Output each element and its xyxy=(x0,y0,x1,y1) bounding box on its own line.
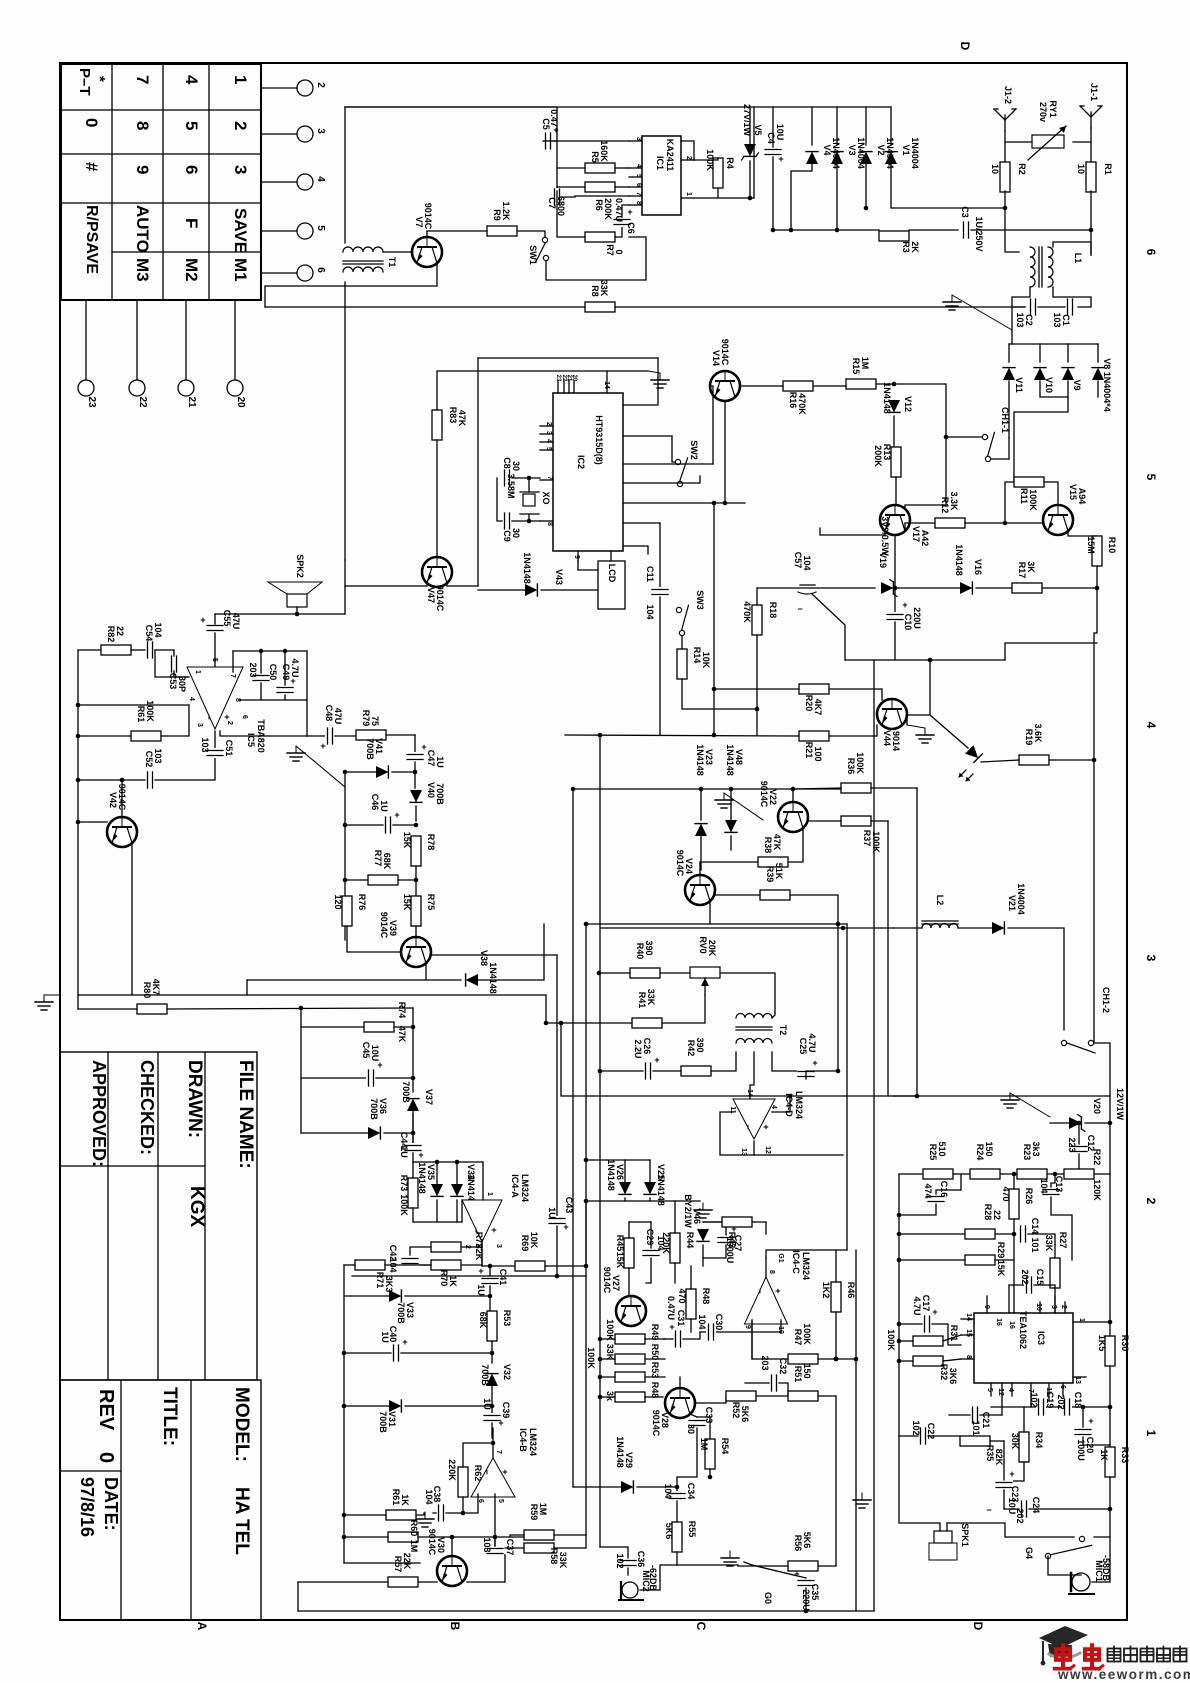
wire R15 to corner xyxy=(894,384,946,509)
svg-text:30: 30 xyxy=(511,461,521,471)
wire node to L1 left xyxy=(1005,230,1019,252)
wire V47 left loop xyxy=(345,583,427,586)
svg-text:C9: C9 xyxy=(502,530,512,542)
pin 9 IC3 xyxy=(983,1296,990,1313)
resistor R45 15K xyxy=(624,1238,634,1268)
wire R80 left xyxy=(78,1008,137,1010)
label L1 xyxy=(1073,253,1083,264)
svg-text:3V9/0.5W: 3V9/0.5W xyxy=(880,516,890,556)
wire C53 stub xyxy=(173,650,175,656)
wire C52 right xyxy=(155,731,215,780)
label C51 xyxy=(200,737,234,756)
wire y1222 row xyxy=(413,1221,462,1223)
svg-text:R2: R2 xyxy=(1017,163,1027,175)
wire V11 to CH1-1 xyxy=(1008,438,1010,459)
label R79 xyxy=(361,710,380,727)
svg-text:+: + xyxy=(794,1569,799,1579)
switch SW3 xyxy=(676,590,705,635)
svg-text:R17: R17 xyxy=(1017,562,1027,579)
wire C31 right xyxy=(683,1332,700,1339)
label V3 xyxy=(847,137,866,169)
svg-text:FILE NAME:: FILE NAME: xyxy=(235,1060,256,1169)
svg-text:T2: T2 xyxy=(778,1025,788,1036)
resistor R6 200K xyxy=(585,182,615,192)
label C27 xyxy=(725,1235,743,1264)
wire V5 down xyxy=(749,161,751,198)
wire bus to C5 xyxy=(345,107,557,141)
label R42 xyxy=(686,1037,705,1056)
label R44 xyxy=(661,1232,695,1255)
label C1 xyxy=(1052,312,1071,327)
wire V22 collector xyxy=(792,789,794,802)
label R23 xyxy=(1022,1141,1041,1160)
wire crystal taps xyxy=(528,478,530,492)
junction col714/p11 xyxy=(712,501,717,506)
wire bus col600 xyxy=(599,735,601,1547)
resistor R2 xyxy=(990,162,1027,192)
svg-text:RV0: RV0 xyxy=(698,936,708,953)
wire keypad row 5 to pin 6 xyxy=(261,272,298,274)
junction col899 R28 xyxy=(897,1232,902,1237)
resistor R82 22 xyxy=(101,645,131,655)
wire loop top xyxy=(478,357,658,359)
zone label B bottom edge xyxy=(448,1622,462,1631)
wire pin7 stub xyxy=(232,651,234,672)
label C4 xyxy=(766,124,785,144)
capacitor C44 1U xyxy=(404,1143,424,1160)
svg-text:10K: 10K xyxy=(701,652,711,669)
wire C53 to amp xyxy=(174,671,188,677)
wire col344 bottom stub xyxy=(344,1562,420,1564)
svg-text:R19: R19 xyxy=(1024,729,1034,746)
junction V42 base xyxy=(76,820,81,825)
resistor R75 15K xyxy=(411,896,421,926)
resistor R69 10K xyxy=(515,1261,545,1271)
svg-text:R16: R16 xyxy=(788,392,798,409)
svg-text:IC2: IC2 xyxy=(576,455,586,469)
label R82 xyxy=(106,626,125,643)
resistor R36 100K xyxy=(841,783,871,793)
svg-text:470: 470 xyxy=(677,1288,687,1303)
svg-text:R33: R33 xyxy=(1120,1447,1130,1464)
diode V26 1N4148 xyxy=(619,1182,631,1194)
label R77 xyxy=(373,850,392,870)
svg-text:R53: R53 xyxy=(502,1310,512,1327)
label R11 xyxy=(1019,488,1038,511)
junction R20 col714 xyxy=(712,687,717,692)
svg-text:BY2/1W: BY2/1W xyxy=(683,1194,693,1228)
capacitor C2 103 xyxy=(1028,298,1038,316)
svg-text:+: + xyxy=(377,1060,382,1070)
svg-text:R48: R48 xyxy=(650,1382,660,1399)
junction V4/y230 xyxy=(789,228,794,233)
wire V38 row xyxy=(247,979,461,981)
wire bus col888 xyxy=(887,821,889,1096)
svg-text:V47: V47 xyxy=(426,587,436,603)
label R72 xyxy=(474,1232,484,1261)
svg-text:L2: L2 xyxy=(935,895,945,906)
varistor RY1 xyxy=(1028,100,1066,160)
wire R1 down xyxy=(1090,191,1092,255)
label R6 xyxy=(594,198,613,220)
svg-text:IC4-B: IC4-B xyxy=(518,1428,528,1452)
wire keypad column to pin 20 xyxy=(234,300,236,381)
wire V15 emitter xyxy=(1068,531,1097,536)
svg-text:+: + xyxy=(812,1058,817,1068)
connector pin 22 xyxy=(129,380,148,408)
label V43 xyxy=(522,552,564,585)
wire pin7 top xyxy=(233,650,307,652)
ground C38 xyxy=(416,1512,434,1527)
svg-text:C52: C52 xyxy=(144,751,154,768)
resistor R1 xyxy=(1076,162,1113,192)
svg-text:1N4004: 1N4004 xyxy=(885,137,895,169)
pin 2 IC1 xyxy=(681,156,694,160)
svg-text:V38: V38 xyxy=(479,950,489,966)
wire IC4C out top xyxy=(766,1250,847,1258)
svg-text:HA TEL: HA TEL xyxy=(231,1487,252,1555)
label V46 xyxy=(683,1194,702,1228)
label 12V xyxy=(1115,1088,1125,1121)
wire V47 right xyxy=(447,583,478,586)
svg-text:2: 2 xyxy=(231,121,250,130)
label R34 xyxy=(1010,1432,1044,1450)
svg-text:5: 5 xyxy=(315,225,326,231)
wire C12 up xyxy=(1078,1123,1080,1144)
junction V41 col xyxy=(343,770,348,775)
logo text dianzi xiazaizhan xyxy=(1108,1647,1187,1662)
svg-text:R50: R50 xyxy=(650,1344,660,1361)
diode V12 1N4148 xyxy=(888,400,900,412)
wire p15 xyxy=(623,476,700,483)
op-amp IC5 TBA820 xyxy=(187,667,243,729)
wire IC4C p9 down xyxy=(751,1320,753,1359)
svg-text:1N4004: 1N4004 xyxy=(1016,883,1026,915)
keypad key SAVE xyxy=(231,208,250,253)
junction y735 x600 xyxy=(598,733,603,738)
label C6 xyxy=(614,198,636,234)
svg-text:+: + xyxy=(478,1266,483,1276)
svg-text:2.2U: 2.2U xyxy=(633,1039,643,1058)
wire V11 anode down xyxy=(1008,381,1010,438)
label C25 xyxy=(798,1033,817,1054)
resistor R48b 470 xyxy=(686,1289,696,1319)
wire V20 right xyxy=(1085,1122,1110,1124)
capacitor C13 104 xyxy=(1042,1187,1060,1197)
junction xtal top xyxy=(527,476,532,481)
svg-text:LM324: LM324 xyxy=(528,1428,538,1456)
svg-text:R34: R34 xyxy=(1034,1432,1044,1449)
junction C40/R53 xyxy=(490,1351,495,1356)
svg-text:M2: M2 xyxy=(182,258,201,282)
label C38 xyxy=(424,1486,442,1505)
wire V27 base xyxy=(628,1268,630,1296)
junction y924 x838 xyxy=(836,922,841,927)
label V35 xyxy=(417,1162,436,1194)
svg-text:R39: R39 xyxy=(765,866,775,883)
svg-text:V10: V10 xyxy=(1044,377,1054,393)
pin 16 IC3 xyxy=(1008,1321,1015,1329)
svg-text:5: 5 xyxy=(182,121,201,130)
wire R14 down xyxy=(682,679,757,709)
capacitor C8 30 xyxy=(502,469,512,487)
svg-text:1M: 1M xyxy=(538,1503,548,1516)
svg-text:15K: 15K xyxy=(996,1260,1006,1277)
wire R40-RV0 xyxy=(660,972,690,974)
wire C38 left xyxy=(433,1512,436,1514)
wire C14 right xyxy=(1028,1234,1055,1245)
label C11 xyxy=(645,566,655,620)
wire V8 top xyxy=(1097,344,1099,362)
svg-text:V3: V3 xyxy=(847,144,857,155)
svg-text:R11: R11 xyxy=(1019,488,1029,504)
resistor R17 3K xyxy=(1012,583,1042,593)
keypad key 8 xyxy=(133,121,152,130)
wire C49 up xyxy=(284,651,286,685)
svg-text:C19: C19 xyxy=(1045,1392,1055,1409)
keypad key 1 xyxy=(231,75,250,84)
wire R70 right xyxy=(461,1247,482,1265)
wire R32 left xyxy=(899,1360,913,1362)
svg-text:97/8/16: 97/8/16 xyxy=(77,1477,97,1537)
capacitor C31 0.47U xyxy=(669,1322,683,1348)
svg-text:9014C: 9014C xyxy=(435,585,445,612)
ground near L1 xyxy=(943,295,1012,330)
svg-text:C47: C47 xyxy=(426,750,436,767)
resistor R72 82K xyxy=(431,1242,461,1252)
capacitor C49 4.7U xyxy=(276,676,296,695)
resistor R37 100K xyxy=(841,816,871,826)
svg-text:R73: R73 xyxy=(399,1175,409,1192)
svg-text:J1-1: J1-1 xyxy=(1089,83,1099,101)
svg-text:R45: R45 xyxy=(615,1235,625,1252)
svg-text:9: 9 xyxy=(133,165,152,174)
svg-text:R75: R75 xyxy=(426,894,436,911)
diode V21 1N4004 xyxy=(992,922,1004,934)
capacitor C30 104 xyxy=(706,1323,716,1341)
resistor R46 1K2 xyxy=(831,1282,841,1312)
svg-text:R21: R21 xyxy=(804,742,814,759)
resistor R78 15K xyxy=(411,836,421,866)
svg-text:R57: R57 xyxy=(393,1556,403,1573)
title table 1 grid xyxy=(60,1052,257,1380)
junction V36/col413 xyxy=(411,1131,416,1136)
wire R37 left xyxy=(808,820,841,822)
diode V41 700B xyxy=(376,766,388,778)
wire V14 to R16 xyxy=(740,385,783,387)
label R43 xyxy=(727,1232,737,1249)
label V28 xyxy=(651,1410,670,1437)
wire out to C48 xyxy=(307,735,325,737)
diode V38 1N4148 xyxy=(466,974,478,986)
label IC5 xyxy=(246,719,266,753)
wire R60 left xyxy=(344,1536,388,1538)
zener V5 27V/1W xyxy=(742,144,759,160)
junction col899 R32 xyxy=(897,1359,902,1364)
svg-text:F: F xyxy=(182,218,201,228)
wire R35 right xyxy=(990,1440,1004,1442)
svg-text:33K: 33K xyxy=(1044,1235,1054,1252)
svg-text:R59: R59 xyxy=(529,1504,539,1521)
capacitor C15 202 xyxy=(1024,1276,1034,1294)
svg-text:3: 3 xyxy=(495,1244,502,1248)
svg-text:100U: 100U xyxy=(1076,1439,1086,1461)
svg-text:7: 7 xyxy=(133,75,152,84)
wire V43 to LCD xyxy=(541,589,598,591)
wire R27 top xyxy=(1054,1245,1056,1258)
label IC2 xyxy=(576,415,604,469)
svg-text:104: 104 xyxy=(424,1489,434,1504)
resistor R33 1K xyxy=(1105,1447,1115,1477)
wire CH1-2 right xyxy=(1094,1043,1110,1096)
wire V24 to R39 xyxy=(715,894,760,896)
wire RY1 right xyxy=(1073,141,1091,143)
wire R18 node down xyxy=(756,709,758,735)
wire crystal left xyxy=(497,478,502,521)
diode V34 1N4148 xyxy=(451,1184,463,1196)
label R24 xyxy=(975,1141,994,1160)
svg-text:+: + xyxy=(489,1227,499,1232)
wire C55 to pin5 xyxy=(214,633,216,667)
wire col586 lower xyxy=(585,1276,587,1548)
wire V17 left xyxy=(820,528,885,535)
resistor R47 100K xyxy=(788,1354,818,1364)
svg-text:C57: C57 xyxy=(793,552,803,569)
svg-text:3: 3 xyxy=(1050,1305,1057,1309)
label V40 xyxy=(426,782,445,805)
svg-text:30: 30 xyxy=(511,528,521,538)
wire col301 xyxy=(300,1008,302,1133)
label V16 xyxy=(954,544,983,576)
junction col546/R41 xyxy=(544,1021,549,1026)
label C48 xyxy=(324,705,343,725)
label C2 xyxy=(1015,312,1034,327)
svg-text:C8: C8 xyxy=(502,457,512,469)
junction col344 R61 xyxy=(342,1513,347,1518)
wire V28 top xyxy=(679,1377,681,1388)
svg-text:R44: R44 xyxy=(685,1232,695,1249)
resistor R18 470K xyxy=(752,605,762,635)
svg-text:5K6: 5K6 xyxy=(664,1523,674,1540)
svg-text:SW3: SW3 xyxy=(695,590,705,610)
label R37 xyxy=(862,830,881,854)
junction col561/R41 xyxy=(559,1021,564,1026)
capacitor C40 1U xyxy=(391,1337,408,1362)
keypad key 3 xyxy=(231,165,250,174)
svg-text:R70: R70 xyxy=(439,1270,449,1287)
svg-text:9014C: 9014C xyxy=(602,1267,612,1294)
svg-text:33K: 33K xyxy=(605,1344,615,1361)
svg-text:220K: 220K xyxy=(447,1459,457,1481)
svg-text:1N4004: 1N4004 xyxy=(910,137,920,169)
svg-text:120: 120 xyxy=(333,894,343,909)
svg-text:9014C: 9014C xyxy=(379,912,389,939)
wire C23 lead xyxy=(1003,1441,1005,1462)
svg-text:9: 9 xyxy=(744,1325,751,1329)
logo graduation cap xyxy=(1039,1626,1088,1665)
junction V23 top xyxy=(699,787,704,792)
label R30 xyxy=(1097,1335,1130,1352)
wire C21 right xyxy=(980,1414,1002,1416)
svg-text:MIC2: MIC2 xyxy=(641,1570,651,1592)
capacitor C27 1000U xyxy=(717,1224,737,1245)
wire R79 right xyxy=(386,734,415,736)
svg-text:V14: V14 xyxy=(711,350,721,366)
svg-text:7: 7 xyxy=(495,1450,502,1454)
pin 14 IC2 xyxy=(603,371,610,393)
svg-text:+: + xyxy=(627,207,632,217)
wire R59 right xyxy=(554,1534,586,1536)
label R9 xyxy=(492,201,511,221)
svg-text:102: 102 xyxy=(911,1420,921,1435)
wire C41 down xyxy=(489,1286,491,1311)
diode V4 1N4004 xyxy=(806,152,818,164)
label R78 xyxy=(402,832,436,851)
capacitor C18 202 xyxy=(1062,1398,1072,1416)
label C43 xyxy=(547,1197,574,1219)
wire V22 emitter xyxy=(788,829,803,862)
wire C13 down xyxy=(1051,1197,1072,1260)
label R52 xyxy=(731,1402,750,1423)
svg-text:−: − xyxy=(755,1288,765,1293)
zone label 4 right edge xyxy=(1144,722,1158,729)
resistor R21 100 xyxy=(799,731,829,741)
label R48b xyxy=(677,1288,711,1305)
title text KGX xyxy=(186,1186,207,1228)
wire R27 bottom xyxy=(1054,1288,1056,1313)
svg-text:100K: 100K xyxy=(871,831,881,853)
wire bottom y995 xyxy=(78,994,546,996)
wire V17 right to R12 xyxy=(905,523,935,531)
label C12 xyxy=(1067,1135,1096,1153)
label C10 xyxy=(903,607,922,630)
wire R41 left xyxy=(546,1022,632,1024)
LED arrows xyxy=(959,770,973,781)
wire col561 down xyxy=(561,1023,586,1096)
svg-text:150: 150 xyxy=(984,1141,994,1156)
junction R18/R14 xyxy=(755,707,760,712)
junction C26 col xyxy=(598,1069,603,1074)
label V23 xyxy=(695,744,714,776)
label R25 xyxy=(928,1141,947,1160)
svg-text:15K: 15K xyxy=(402,832,412,849)
svg-text:3.58M: 3.58M xyxy=(506,473,516,498)
diode V36 700B xyxy=(368,1127,380,1139)
junction R61 col xyxy=(76,734,81,739)
svg-text:V40: V40 xyxy=(426,782,436,798)
switch CH1-1 xyxy=(982,407,1010,462)
zener V20 12V xyxy=(1069,1115,1085,1132)
svg-text:12: 12 xyxy=(997,1388,1004,1396)
transformer T1 top winding xyxy=(343,247,383,264)
svg-text:V21: V21 xyxy=(1007,895,1017,911)
label C32 xyxy=(760,1355,788,1374)
transistor V30 9014C xyxy=(437,1556,467,1586)
wire C36 bottom xyxy=(627,1568,629,1575)
wire C15 left xyxy=(1009,1284,1024,1286)
label C42 xyxy=(388,1245,398,1273)
svg-text:R83: R83 xyxy=(448,407,458,424)
wire C40 right xyxy=(401,1352,492,1354)
svg-text:C43: C43 xyxy=(564,1197,574,1214)
svg-text:C22: C22 xyxy=(926,1423,936,1440)
wire C8 right xyxy=(512,477,540,479)
label R45 xyxy=(615,1235,625,1269)
svg-text:C3: C3 xyxy=(960,206,970,218)
connector pin 6 xyxy=(297,265,326,281)
label R60 xyxy=(409,1520,419,1553)
junction R2/V1 node xyxy=(1003,206,1008,211)
